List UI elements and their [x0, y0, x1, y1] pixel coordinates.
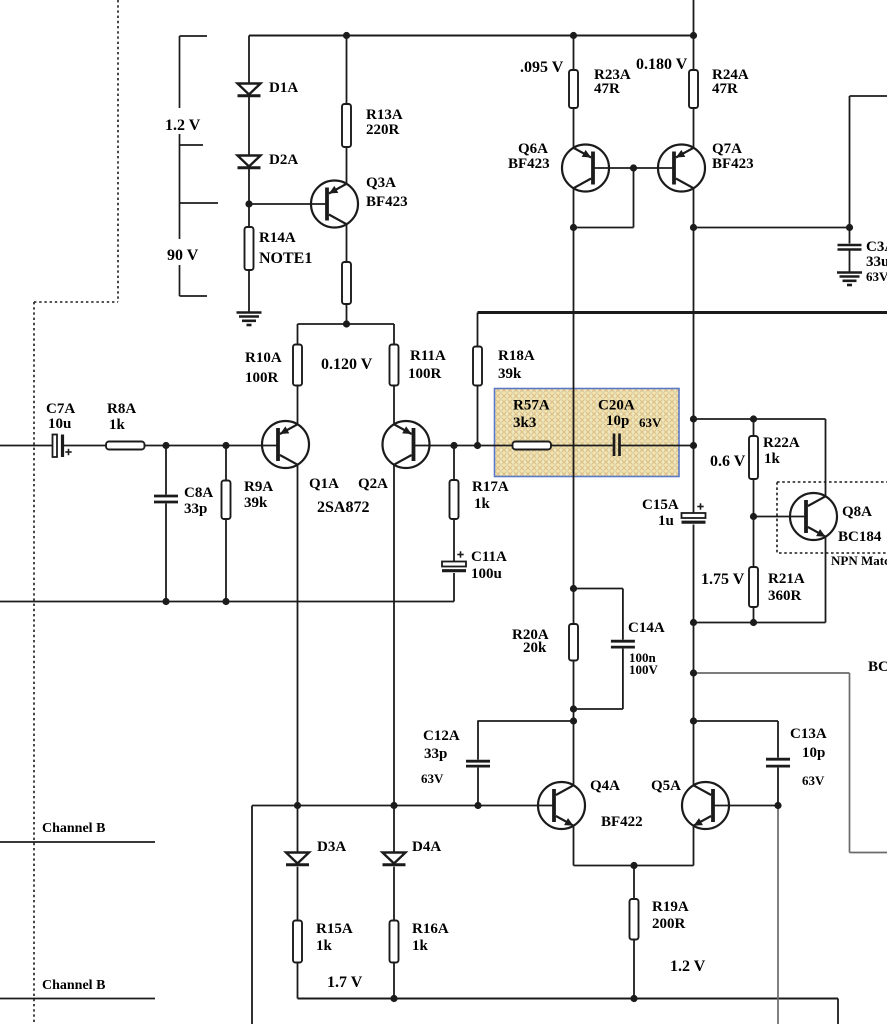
svg-text:1.2 V: 1.2 V	[670, 958, 706, 975]
svg-text:10p: 10p	[802, 745, 825, 761]
svg-text:220R: 220R	[366, 122, 400, 138]
svg-text:.095 V: .095 V	[520, 59, 564, 76]
svg-text:10p: 10p	[606, 413, 629, 429]
svg-text:NOTE1: NOTE1	[259, 250, 312, 267]
svg-text:1u: 1u	[658, 513, 674, 529]
svg-text:63V: 63V	[866, 269, 887, 284]
svg-text:100R: 100R	[408, 366, 442, 382]
svg-text:C11A: C11A	[471, 549, 507, 565]
svg-text:R17A: R17A	[472, 479, 509, 495]
svg-text:Q3A: Q3A	[366, 175, 396, 191]
svg-text:C12A: C12A	[423, 728, 460, 744]
svg-text:Q4A: Q4A	[590, 778, 620, 794]
svg-text:C7A: C7A	[46, 401, 75, 417]
svg-text:20k: 20k	[523, 640, 547, 656]
svg-text:R11A: R11A	[410, 348, 446, 364]
svg-text:R16A: R16A	[412, 921, 449, 937]
svg-text:90 V: 90 V	[167, 247, 199, 264]
svg-text:Q1A: Q1A	[309, 476, 339, 492]
svg-text:BF423: BF423	[366, 194, 408, 210]
svg-text:2SA872: 2SA872	[317, 499, 369, 516]
svg-text:360R: 360R	[768, 588, 802, 604]
svg-text:Q2A: Q2A	[358, 476, 388, 492]
svg-text:NPN Matc: NPN Matc	[831, 553, 887, 568]
svg-text:1k: 1k	[109, 417, 126, 433]
svg-text:100V: 100V	[629, 662, 659, 677]
svg-text:Channel B: Channel B	[42, 978, 105, 993]
svg-text:0.6 V: 0.6 V	[710, 453, 746, 470]
svg-text:Q6A: Q6A	[518, 141, 548, 157]
svg-text:BC184: BC184	[838, 529, 882, 545]
svg-text:1k: 1k	[412, 938, 429, 954]
svg-text:10u: 10u	[48, 416, 71, 432]
svg-text:D4A: D4A	[412, 839, 441, 855]
svg-text:R14A: R14A	[259, 230, 296, 246]
svg-text:1k: 1k	[764, 451, 781, 467]
svg-text:C15A: C15A	[642, 497, 679, 513]
svg-text:Q5A: Q5A	[651, 778, 681, 794]
svg-text:C3A: C3A	[866, 239, 887, 255]
svg-text:1.2 V: 1.2 V	[165, 117, 201, 134]
svg-text:R22A: R22A	[763, 435, 800, 451]
svg-text:R8A: R8A	[107, 401, 136, 417]
svg-text:BF423: BF423	[508, 156, 550, 172]
svg-text:C13A: C13A	[790, 726, 827, 742]
svg-text:R19A: R19A	[652, 899, 689, 915]
svg-text:R21A: R21A	[768, 571, 805, 587]
svg-text:R10A: R10A	[245, 350, 282, 366]
svg-text:33p: 33p	[424, 746, 447, 762]
svg-text:C20A: C20A	[598, 398, 635, 414]
svg-text:BC1: BC1	[868, 659, 887, 675]
svg-text:47R: 47R	[712, 81, 738, 97]
svg-text:33u: 33u	[866, 254, 887, 270]
svg-text:D2A: D2A	[269, 152, 298, 168]
svg-text:BF423: BF423	[712, 156, 754, 172]
svg-text:39k: 39k	[244, 495, 268, 511]
svg-text:1.7 V: 1.7 V	[327, 974, 363, 991]
svg-text:R9A: R9A	[244, 479, 273, 495]
svg-text:BF422: BF422	[601, 814, 643, 830]
svg-text:63V: 63V	[639, 415, 662, 430]
svg-text:Q8A: Q8A	[842, 504, 872, 520]
svg-text:100u: 100u	[471, 566, 502, 582]
svg-text:63V: 63V	[802, 773, 825, 788]
svg-text:Q7A: Q7A	[712, 141, 742, 157]
svg-text:R13A: R13A	[366, 107, 403, 123]
svg-text:1k: 1k	[474, 496, 491, 512]
svg-text:D3A: D3A	[317, 839, 346, 855]
svg-text:R15A: R15A	[316, 921, 353, 937]
svg-text:1.75 V: 1.75 V	[701, 571, 745, 588]
svg-text:R18A: R18A	[498, 348, 535, 364]
svg-text:100R: 100R	[245, 370, 279, 386]
svg-text:Channel B: Channel B	[42, 821, 105, 836]
svg-text:0.180 V: 0.180 V	[636, 56, 688, 73]
svg-text:39k: 39k	[498, 366, 522, 382]
svg-text:R57A: R57A	[513, 398, 550, 414]
svg-text:C14A: C14A	[628, 620, 665, 636]
svg-text:1k: 1k	[316, 938, 333, 954]
svg-text:63V: 63V	[421, 771, 444, 786]
svg-text:D1A: D1A	[269, 80, 298, 96]
svg-text:0.120 V: 0.120 V	[321, 356, 373, 373]
svg-text:200R: 200R	[652, 916, 686, 932]
svg-text:3k3: 3k3	[513, 415, 536, 431]
svg-text:47R: 47R	[594, 81, 620, 97]
svg-text:33p: 33p	[184, 501, 207, 517]
svg-text:C8A: C8A	[184, 485, 213, 501]
